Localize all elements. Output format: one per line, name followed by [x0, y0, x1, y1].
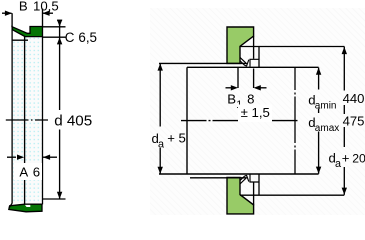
svg-text:475: 475 — [343, 114, 365, 129]
svg-text:a: a — [335, 158, 341, 170]
svg-text:6,5: 6,5 — [78, 30, 97, 45]
svg-text:20: 20 — [352, 152, 365, 166]
svg-text:440: 440 — [343, 91, 365, 106]
svg-text:amin: amin — [315, 101, 337, 112]
svg-text:+: + — [342, 151, 350, 166]
svg-text:10,5: 10,5 — [33, 0, 59, 13]
svg-text:+ 5: + 5 — [167, 131, 186, 146]
svg-text:C: C — [65, 30, 75, 45]
svg-text:A: A — [19, 164, 28, 179]
svg-text:B: B — [227, 91, 236, 106]
svg-text:6: 6 — [33, 164, 40, 179]
svg-text:B: B — [19, 0, 28, 13]
svg-text:amax: amax — [315, 123, 339, 134]
svg-text:± 1,5: ± 1,5 — [241, 105, 270, 120]
svg-text:d 405: d 405 — [54, 112, 92, 129]
svg-text:a: a — [158, 138, 164, 150]
